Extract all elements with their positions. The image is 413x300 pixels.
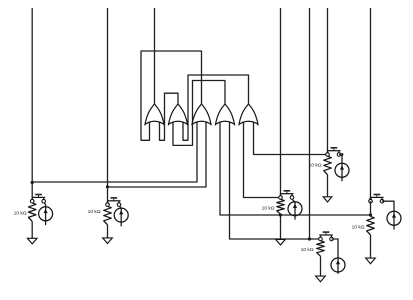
wire pin to current source TG6 bbox=[339, 155, 342, 182]
pin stub right TG3 bbox=[291, 194, 293, 198]
wire pin to current source TG2 bbox=[119, 206, 121, 227]
wire: U2 output to U1 right input bbox=[160, 93, 179, 140]
or-gate U1 bbox=[145, 104, 164, 125]
pin left TG3 bbox=[279, 196, 283, 200]
label 10k TG1 bbox=[14, 211, 27, 217]
pin left TG4 bbox=[319, 237, 323, 241]
wire pin to current source TG1 bbox=[44, 203, 46, 226]
wire TG6 resistor to ground bbox=[327, 175, 329, 197]
ground TG5 bbox=[366, 258, 376, 264]
wire: U3 right input down-left to node B bbox=[108, 122, 207, 187]
ground TG4 bbox=[316, 276, 326, 282]
wire: input D from top edge down to terminal group TG3 bbox=[280, 8, 282, 198]
svg-text:10 kΩ: 10 kΩ bbox=[14, 211, 27, 217]
net label TG5 bbox=[370, 194, 383, 198]
label 10k TG5 bbox=[352, 225, 365, 231]
current source I TG2 bbox=[114, 208, 128, 222]
wire: input G from top edge down to terminal group TG5 bbox=[370, 8, 372, 201]
pin stub right TG5 bbox=[381, 197, 383, 201]
wire TG4 resistor to ground bbox=[320, 256, 322, 276]
svg-text:10 kΩ: 10 kΩ bbox=[88, 209, 101, 215]
pin left TG5 bbox=[369, 199, 373, 203]
wire pin to current source TG3 bbox=[292, 199, 295, 219]
label 10k TG6 bbox=[309, 163, 322, 169]
or-gate U4 bbox=[215, 104, 234, 125]
wire: U5 left input to TG3 pin bbox=[244, 122, 281, 198]
ground TG6 bbox=[323, 197, 332, 202]
junction dot input E / ground bus bbox=[308, 237, 311, 240]
pin right TG1 bbox=[42, 199, 46, 203]
wire TG5 pin to mid-rail dot bbox=[370, 201, 372, 216]
wire: U4 right input to ground bus to TG4 bbox=[230, 122, 321, 239]
pin right TG4 bbox=[330, 237, 334, 241]
svg-text:10 kΩ: 10 kΩ bbox=[262, 206, 275, 212]
junction dot TG6 current source corner bbox=[341, 153, 344, 156]
label 10k TG2 bbox=[88, 209, 101, 215]
wire: input E from top edge down to ground bus bbox=[309, 8, 311, 239]
label 10k TG3 bbox=[262, 206, 275, 212]
wire: U3 left input down-left to node A bbox=[32, 122, 197, 182]
wire: U4 left input to TG3/TG5 mid rail bbox=[220, 122, 371, 215]
pin stub left TG4 bbox=[320, 235, 322, 239]
or-gate U2 bbox=[168, 104, 187, 125]
ground TG3 bbox=[276, 239, 286, 245]
wire resistor to ground TG1 bbox=[31, 221, 33, 238]
net label TG3 bbox=[280, 190, 293, 194]
pin left TG1 bbox=[30, 199, 34, 203]
svg-text:10 kΩ: 10 kΩ bbox=[301, 247, 314, 253]
pin left TG2 bbox=[106, 203, 110, 207]
resistor R TG5 10k bbox=[367, 216, 375, 235]
label 10k TG4 bbox=[301, 247, 314, 253]
svg-text:10 kΩ: 10 kΩ bbox=[352, 225, 365, 231]
wire TG5 resistor to ground bbox=[370, 235, 372, 258]
current source I TG3 bbox=[288, 202, 302, 216]
or-gate U3 bbox=[192, 104, 211, 125]
pin stub left TG1 bbox=[31, 197, 33, 201]
pin stub left TG2 bbox=[107, 201, 109, 205]
wire: node A down to terminal group TG1 bbox=[31, 183, 33, 202]
ground TG2 bbox=[103, 238, 113, 244]
junction dot above left pin TG5 bbox=[369, 198, 372, 201]
wire pin to current source TG4 bbox=[332, 239, 339, 274]
wire: U3 output to U1 left input bbox=[141, 51, 202, 140]
resistor R TG2 10k bbox=[104, 206, 112, 225]
junction dot mid rail at TG3 bbox=[279, 213, 282, 216]
current source I TG6 bbox=[335, 163, 349, 177]
pin stub left TG5 bbox=[370, 197, 372, 201]
net label TG2 bbox=[107, 197, 120, 201]
pin right TG5 bbox=[380, 199, 384, 203]
pin stub right TG6 bbox=[338, 151, 340, 155]
wire: input B from top edge down to node at y=186.8 bbox=[107, 8, 109, 187]
wire: input A from top edge down to node at y=182.5 bbox=[31, 8, 33, 183]
wire: U5 right input to TG6 pin bbox=[254, 122, 328, 155]
current source I TG4 bbox=[331, 258, 345, 272]
pin stub left TG6 bbox=[327, 151, 329, 155]
pin left TG6 bbox=[326, 153, 330, 157]
wire: U5 output to U2 right input bbox=[183, 75, 249, 140]
pin right TG2 bbox=[117, 203, 121, 207]
resistor R TG1 10k bbox=[28, 203, 36, 222]
net label TG1 bbox=[32, 194, 45, 198]
wire TG3 resistor to ground bus bbox=[280, 214, 282, 239]
wire pin to current source TG5 bbox=[382, 201, 394, 229]
ground TG1 bbox=[27, 238, 37, 244]
svg-text:10 kΩ: 10 kΩ bbox=[309, 163, 322, 169]
pin stub right TG2 bbox=[118, 201, 120, 205]
junction dot mid rail at TG5 bbox=[369, 213, 372, 216]
wire resistor to ground TG2 bbox=[107, 225, 109, 238]
current source I TG5 bbox=[387, 211, 401, 225]
current source I TG1 bbox=[39, 207, 53, 221]
resistor R TG3 10k bbox=[277, 199, 285, 214]
net label TG6 bbox=[327, 147, 340, 151]
resistor R TG6 10k bbox=[324, 156, 332, 175]
node B junction dot bbox=[106, 185, 109, 188]
wire: U4 output to U2 left input bbox=[173, 81, 225, 146]
resistor R TG4 10k bbox=[317, 241, 325, 257]
pin stub left TG3 bbox=[280, 194, 282, 198]
wire: input F from top edge down to terminal group TG6 bbox=[327, 8, 329, 155]
node A junction dot bbox=[31, 181, 34, 184]
or-gate U5 bbox=[239, 104, 258, 125]
pin right TG6 bbox=[337, 153, 341, 157]
net label TG4 bbox=[319, 231, 332, 235]
wire: OR gate U1 output up to top edge bbox=[154, 8, 156, 104]
wire: node B down to terminal group TG2 bbox=[107, 187, 109, 205]
pin stub right TG4 bbox=[331, 235, 333, 239]
pin right TG3 bbox=[290, 196, 294, 200]
pin stub right TG1 bbox=[43, 197, 45, 201]
